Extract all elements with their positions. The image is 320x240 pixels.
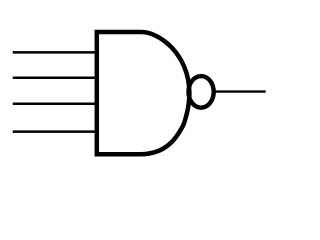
input wire A [13,51,97,54]
NAND gate U1 body [97,32,190,154]
4-input NAND gate schematic [0,0,280,180]
inversion bubble [189,76,214,108]
output wire [213,90,266,92]
input wire C [13,102,97,105]
input wire B [13,77,97,80]
input wire D [13,130,97,133]
